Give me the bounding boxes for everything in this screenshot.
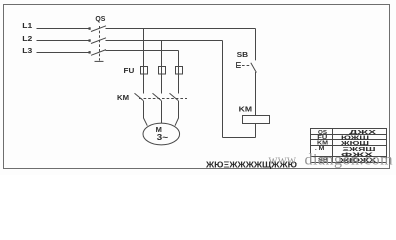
svg-text:WWW.: WWW. bbox=[269, 157, 299, 167]
svg-text:L1: L1 bbox=[22, 23, 32, 30]
svg-text:SB: SB bbox=[237, 52, 249, 59]
svg-text:ЖЮШ: ЖЮШ bbox=[339, 140, 369, 146]
svg-text:KM: KM bbox=[117, 95, 129, 102]
svg-text:L2: L2 bbox=[22, 36, 32, 43]
svg-text:diangon.com: diangon.com bbox=[305, 152, 394, 169]
svg-text:FU: FU bbox=[124, 68, 135, 75]
svg-text:KM: KM bbox=[317, 141, 328, 146]
svg-text:3~: 3~ bbox=[157, 133, 169, 142]
svg-text:L3: L3 bbox=[22, 48, 32, 55]
svg-text:QS: QS bbox=[95, 16, 105, 23]
svg-text:KM: KM bbox=[239, 106, 253, 113]
